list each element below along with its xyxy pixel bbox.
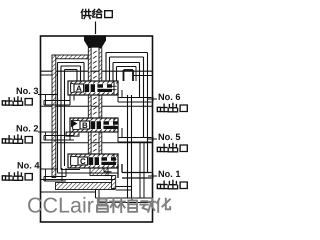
step below bore C end (114, 167, 118, 169)
svg-text:B: B (82, 121, 88, 130)
joint line stub right (133, 75, 153, 77)
bore C wall hatch ticks (70, 154, 72, 156)
leader line No.1 (148, 175, 157, 177)
leader line No.3 (38, 94, 58, 96)
hatched wall below piston B left end (66, 132, 79, 136)
watermark 昌林自动化 (97, 199, 108, 212)
left channel vertical v2 (60, 66, 62, 170)
svg-text:No. 1: No. 1 (158, 169, 180, 179)
line below bottom hatch band (41, 191, 96, 193)
left channel vertical v1 (57, 63, 59, 174)
supply channel wall left (hatched) (88, 48, 91, 81)
piston C lands (black) (89, 157, 99, 165)
svg-text:A: A (76, 84, 82, 93)
distributor block outer outline (41, 36, 153, 222)
below-C channel step outlines (104, 171, 112, 173)
bore A right end cap and channel to No.6 port (113, 81, 115, 95)
No.3 outlet channel (left, row A) (44, 100, 70, 102)
joint line stub left (41, 74, 58, 76)
piston bore A: outline (68, 81, 118, 95)
bottom channel line h (above hatch band) (58, 172, 119, 174)
left channel vertical v3 (64, 70, 66, 167)
channel line TL h3 (65, 69, 78, 71)
supply port fitting (black) (84, 35, 106, 47)
channel line TL h1 (58, 62, 85, 64)
hatched wall - bottom band (56, 183, 116, 190)
piston bore B: outline (70, 118, 118, 132)
piston C letter box (78, 157, 88, 165)
TR vertical v4b (135, 67, 137, 82)
svg-text:C: C (80, 157, 86, 166)
line above bottom hatch band (41, 179, 116, 181)
label 给 (93, 9, 102, 18)
piston B letter box (80, 121, 90, 129)
piston B left wedge tip (black) (71, 120, 78, 127)
hatched wall - left vertical (52, 55, 56, 178)
right channel vertical v2 (to No.5) (143, 57, 145, 138)
supply channel internal ticks (93, 51, 97, 53)
leader line No.5 (148, 138, 157, 140)
bore B wall hatch ticks (72, 118, 74, 120)
leader line No.4 (40, 168, 58, 170)
channel wall A-B right (99, 95, 102, 118)
piston A lands (black) (85, 84, 95, 92)
leader line from 供给口 to fitting (95, 22, 97, 35)
right channel long vertical v5 (127, 95, 129, 198)
No.4 outlet channel (left, row C) (44, 176, 66, 178)
block joint line (41, 70, 153, 72)
right channel vertical pair to bottom (139, 142, 141, 198)
channel wall B-C right (99, 132, 102, 154)
No.2 outlet channel (left, row B) (44, 135, 74, 137)
bottom channel to right border (95, 190, 97, 198)
supply channel wall right (hatched) (99, 48, 102, 81)
right channel long vertical v6 (131, 95, 133, 198)
svg-text:No. 5: No. 5 (158, 132, 180, 142)
svg-text:No. 2: No. 2 (16, 124, 38, 134)
channel wall A-B left (88, 95, 91, 118)
right channel vertical v3 (to No.6) (139, 63, 141, 98)
block joint line 2 (41, 105, 153, 107)
bore C right end cap and channel to No.1 port (113, 154, 115, 168)
leader line No.2 (38, 131, 58, 133)
svg-text:No. 4: No. 4 (17, 161, 40, 171)
leader line No.6 (148, 98, 157, 100)
right channel vertical v1 (to No.1) (147, 53, 149, 173)
channel line TR h4 (117, 66, 137, 68)
channel wall B-C left (88, 132, 91, 154)
bore A wall hatch ticks (70, 81, 72, 83)
piston bore C: outline (68, 154, 118, 168)
svg-text:CCLair: CCLair (27, 194, 94, 218)
piston A letter box (74, 84, 84, 92)
svg-text:No. 3: No. 3 (16, 86, 38, 96)
label 口 (105, 11, 113, 18)
piston B lands (black) (91, 121, 101, 129)
bottom channel line h2 (61, 169, 80, 171)
channel line TR h1 (106, 52, 148, 54)
channel line TR inner small (124, 69, 134, 71)
block joint line 3 (41, 142, 153, 144)
hatched wall - top left band (52, 55, 88, 59)
bore B right end cap and channel to No.5 port (113, 118, 115, 132)
hatched wall right of below-C channel (112, 176, 116, 189)
channel line TR h2 (110, 56, 144, 58)
hatched step below piston C (90, 168, 108, 176)
channel line TL h2 (61, 65, 81, 67)
svg-text:No. 6: No. 6 (158, 92, 180, 102)
label 供 (supply label) (81, 9, 91, 18)
channel line TR h3 (113, 62, 140, 64)
